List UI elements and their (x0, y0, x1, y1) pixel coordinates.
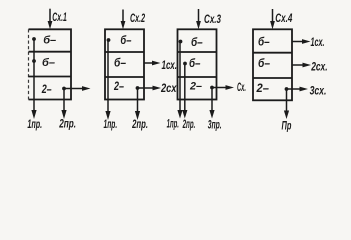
svg-text:2–: 2– (256, 83, 270, 95)
svg-text:б–: б– (258, 57, 270, 70)
svg-text:2–: 2– (113, 81, 124, 93)
svg-text:Сх.2: Сх.2 (130, 12, 145, 25)
svg-text:2пр.: 2пр. (182, 118, 195, 132)
svg-text:б–: б– (42, 57, 55, 69)
svg-text:1пр.: 1пр. (167, 117, 179, 131)
svg-text:2пр.: 2пр. (131, 118, 148, 131)
svg-text:Сх.1: Сх.1 (52, 11, 67, 24)
svg-text:2–: 2– (189, 80, 202, 92)
svg-text:2сх.: 2сх. (160, 82, 179, 95)
svg-text:б–: б– (43, 34, 56, 46)
svg-text:2сх.: 2сх. (310, 61, 327, 74)
svg-text:Сх.: Сх. (237, 80, 246, 94)
svg-text:1сх.: 1сх. (311, 36, 325, 49)
svg-text:2–: 2– (41, 84, 52, 96)
svg-text:3пр.: 3пр. (208, 118, 222, 132)
svg-text:Сх.3: Сх.3 (204, 13, 221, 26)
svg-text:1сх.: 1сх. (162, 60, 177, 73)
svg-text:3сх.: 3сх. (310, 85, 327, 98)
svg-text:б–: б– (191, 36, 203, 49)
svg-text:б–: б– (189, 57, 201, 70)
svg-text:б–: б– (258, 36, 270, 49)
svg-text:1пр.: 1пр. (104, 118, 118, 132)
svg-text:Пр: Пр (282, 120, 292, 133)
svg-text:1пр.: 1пр. (27, 118, 42, 131)
svg-text:Сх.4: Сх.4 (275, 12, 292, 25)
svg-text:б–: б– (114, 57, 126, 70)
svg-text:2пр.: 2пр. (58, 118, 76, 131)
svg-text:б–: б– (120, 34, 131, 47)
